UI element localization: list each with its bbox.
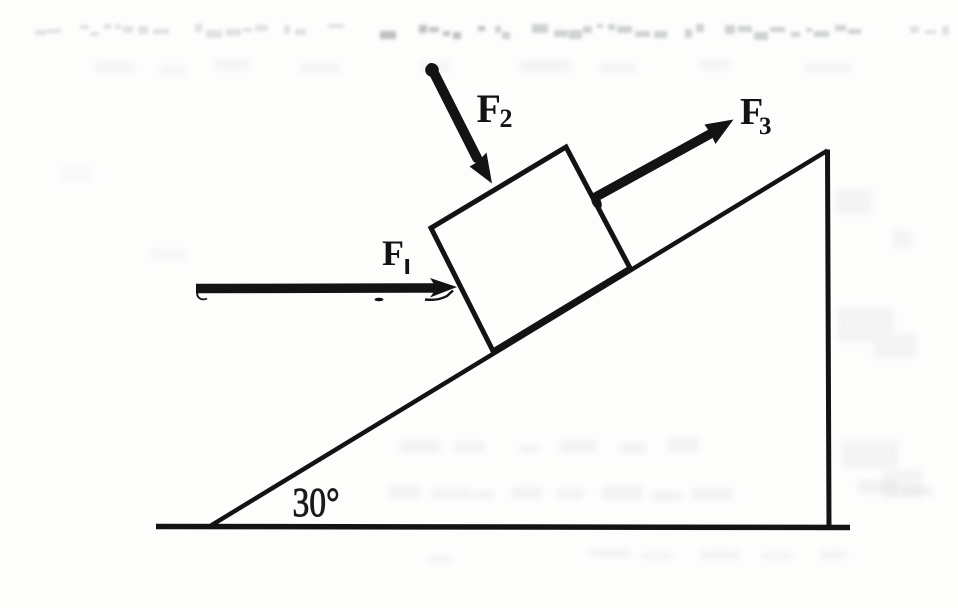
label F1 subscript bar	[405, 259, 409, 274]
svg-text:2: 2	[500, 104, 513, 133]
force arrow F2 shaft	[432, 68, 478, 158]
force arrow F1 tail hook	[197, 291, 207, 299]
ground line	[156, 527, 850, 528]
force arrow F1 shaft	[196, 283, 437, 293]
force arrow F1 head swoosh	[425, 291, 453, 300]
svg-text:3: 3	[759, 113, 772, 140]
svg-text:30°: 30°	[293, 481, 340, 526]
force arrow F3 tail blob	[589, 193, 604, 210]
svg-text:F: F	[477, 86, 501, 131]
force arrow F2 head	[470, 153, 493, 184]
incline vertical side	[828, 150, 830, 529]
incline hypotenuse	[211, 151, 828, 526]
block on incline	[431, 147, 630, 351]
force arrow F3 shaft	[593, 134, 711, 199]
force arrow F1 ink speck	[375, 298, 384, 302]
svg-text:F: F	[382, 233, 404, 273]
force arrow F3 head	[705, 120, 734, 145]
force arrow F1 head	[430, 278, 457, 298]
angle label 30 degrees	[293, 481, 340, 526]
